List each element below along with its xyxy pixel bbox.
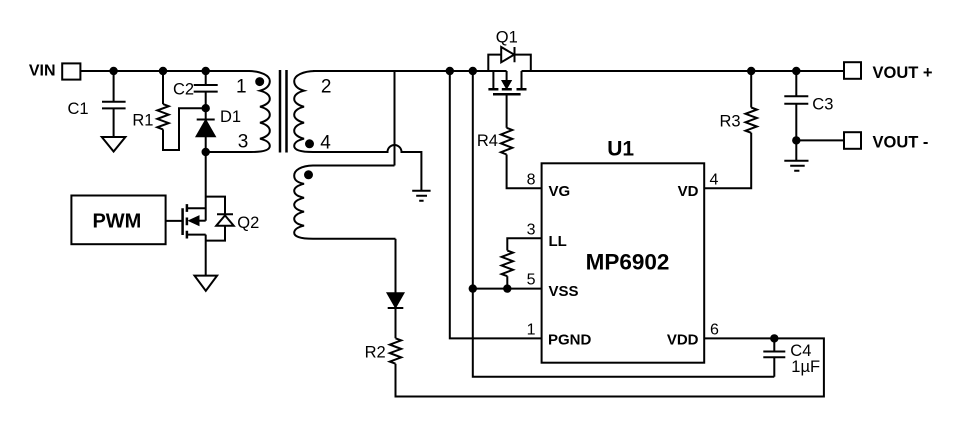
resistor R4 — [501, 128, 512, 155]
svg-text:U1: U1 — [607, 138, 634, 161]
svg-text:VSS: VSS — [549, 283, 579, 300]
transformer core — [280, 70, 287, 153]
svg-text:R3: R3 — [720, 112, 741, 130]
svg-text:VIN: VIN — [29, 62, 56, 79]
node LL resistor VSS junction — [504, 285, 510, 291]
wire output rail to auxiliary winding — [394, 71, 396, 166]
svg-text:4: 4 — [320, 133, 331, 154]
transformer T primary winding — [206, 71, 270, 152]
secondary phase dot — [306, 140, 313, 147]
primary phase dot — [256, 78, 263, 85]
svg-text:3: 3 — [238, 131, 249, 152]
svg-text:VD: VD — [678, 183, 699, 200]
resistor LL-VSS — [502, 251, 513, 277]
node PGND rail tap — [447, 68, 453, 74]
transistor Q2 body diode — [216, 214, 233, 225]
svg-text:Q1: Q1 — [496, 29, 518, 47]
node C3 top — [793, 68, 799, 74]
terminal VOUT+ — [844, 62, 861, 79]
svg-text:VDD: VDD — [667, 332, 699, 349]
svg-text:PGND: PGND — [548, 332, 592, 349]
svg-text:VOUT -: VOUT - — [873, 133, 929, 151]
svg-text:3: 3 — [527, 221, 536, 238]
svg-text:2: 2 — [321, 76, 332, 97]
svg-text:Q2: Q2 — [237, 214, 259, 232]
ground earth symbol below C3 — [784, 140, 808, 170]
node clamp (C2/D1/R1) — [203, 105, 209, 111]
transformer secondary winding — [294, 71, 315, 152]
wire R1 bottom to clamp node — [163, 108, 206, 150]
wire output rail Q1 to VOUT+ — [522, 70, 845, 72]
node R3 top — [748, 68, 754, 74]
wire VSS net vertical — [473, 71, 775, 377]
wire LL pin — [507, 238, 541, 250]
transistor Q2 body diode loop — [206, 197, 225, 241]
svg-text:VG: VG — [549, 183, 571, 200]
wire Q2 drain — [205, 152, 207, 221]
node C4 top — [771, 335, 777, 341]
resistor R2 — [390, 338, 401, 363]
IC U1 MP6902 — [542, 163, 705, 362]
node C2 top — [203, 68, 209, 74]
block PWM — [71, 196, 165, 245]
svg-text:C2: C2 — [173, 81, 194, 99]
wire node to primary pin 3 — [206, 151, 250, 153]
svg-text:1: 1 — [236, 76, 247, 97]
ground below Q2 — [195, 276, 218, 291]
svg-text:5: 5 — [527, 271, 536, 288]
transistor Q1 body diode — [501, 47, 514, 62]
node VSS junction — [470, 285, 476, 291]
svg-text:PWM: PWM — [92, 211, 141, 233]
wire VDD pin — [704, 337, 774, 339]
svg-text:R1: R1 — [132, 112, 153, 130]
auxiliary phase dot — [305, 171, 312, 178]
node R1 top — [160, 68, 166, 74]
wire R3 top to rail — [750, 71, 752, 108]
wire top rail from VIN to transformer primary — [80, 70, 250, 72]
ground below C1 — [102, 137, 126, 152]
svg-text:C1: C1 — [68, 100, 89, 118]
svg-text:1µF: 1µF — [791, 358, 820, 376]
svg-text:8: 8 — [527, 171, 536, 188]
terminal VIN — [62, 63, 80, 79]
svg-text:R2: R2 — [365, 344, 386, 362]
svg-text:6: 6 — [710, 321, 719, 338]
diode D1 — [197, 108, 215, 152]
wire Q2 source — [205, 235, 207, 276]
capacitor C3 — [784, 71, 808, 140]
node VSS rail tap — [470, 68, 476, 74]
wire LL resistor to VSS — [506, 276, 508, 288]
wire R4 to VG pin — [507, 155, 542, 189]
diode auxiliary rectifier — [388, 239, 404, 338]
transistor Q1 body diode loop — [488, 55, 531, 71]
resistor R1 — [157, 71, 168, 129]
wire PGND net — [450, 71, 542, 338]
capacitor C2 — [194, 71, 218, 108]
svg-text:C3: C3 — [812, 95, 833, 113]
svg-text:R4: R4 — [477, 132, 498, 150]
wire secondary bottom with hop to ground — [313, 145, 421, 190]
wire VSS to IC — [473, 288, 542, 290]
svg-text:MP6902: MP6902 — [586, 250, 670, 275]
wire secondary top to Q1 — [313, 70, 507, 72]
node C3 bottom / VOUT- — [793, 137, 799, 143]
capacitor C1 — [102, 71, 126, 137]
svg-text:1: 1 — [527, 321, 536, 338]
capacitor C4 — [763, 338, 785, 376]
svg-text:D1: D1 — [220, 108, 241, 126]
wire R2 bottom to VDD net — [396, 338, 824, 396]
resistor R3 — [746, 108, 757, 133]
svg-text:LL: LL — [549, 233, 567, 250]
transformer auxiliary winding — [294, 166, 395, 239]
terminal VOUT- — [844, 132, 861, 149]
transistor Q2 channel and gate — [166, 204, 206, 238]
transistor Q1 channel and gate — [488, 71, 526, 128]
wire VOUT- — [796, 139, 844, 141]
wire VD pin to R3 — [704, 133, 751, 189]
node C1 top — [110, 68, 116, 74]
ground earth symbol secondary — [412, 191, 430, 201]
node primary pin 3 / Q2 drain — [203, 149, 209, 155]
svg-text:4: 4 — [710, 171, 719, 188]
svg-text:VOUT +: VOUT + — [873, 64, 933, 82]
